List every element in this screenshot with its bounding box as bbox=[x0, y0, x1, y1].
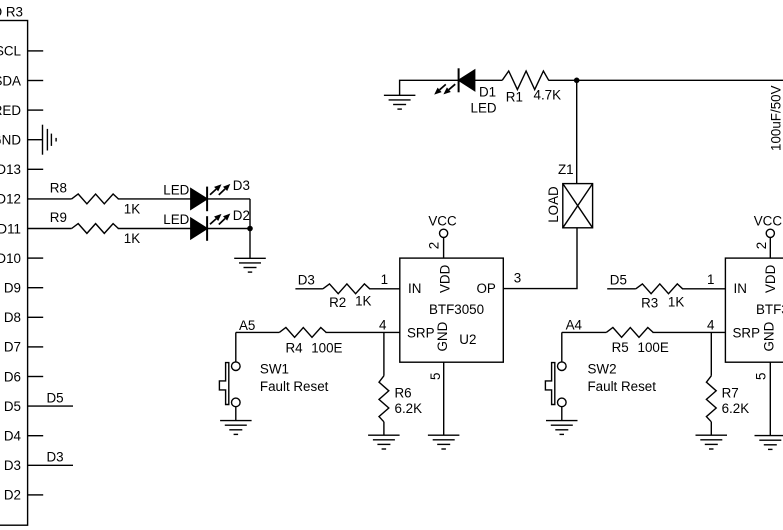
svg-text:3: 3 bbox=[514, 271, 521, 286]
svg-text:4.7K: 4.7K bbox=[534, 88, 562, 103]
svg-text:D9: D9 bbox=[4, 281, 21, 296]
pin D6 stub bbox=[28, 376, 44, 378]
wire R7 to ground bbox=[710, 422, 712, 435]
svg-text:SW2: SW2 bbox=[588, 361, 617, 376]
wire R3 to U3 IN bbox=[682, 288, 725, 290]
label GND U2 bbox=[435, 321, 450, 351]
resistor R8 bbox=[72, 194, 119, 204]
wire A5 down to SW1 bbox=[235, 332, 237, 362]
wire U2 pin5 to ground bbox=[443, 362, 445, 435]
svg-text:VDD: VDD bbox=[437, 264, 452, 293]
pin D7 stub bbox=[28, 346, 44, 348]
svg-text:VCC: VCC bbox=[754, 214, 783, 229]
svg-text:UNO R3: UNO R3 bbox=[0, 4, 23, 19]
svg-text:R5: R5 bbox=[612, 340, 629, 355]
svg-text:5: 5 bbox=[753, 373, 768, 380]
svg-text:R3: R3 bbox=[641, 296, 658, 311]
resistor R6 bbox=[379, 376, 389, 422]
wire D5 to R3 bbox=[607, 288, 636, 290]
svg-text:SRP: SRP bbox=[407, 326, 435, 341]
svg-text:IN: IN bbox=[408, 281, 421, 296]
ground below R6 bbox=[368, 434, 400, 436]
svg-text:1K: 1K bbox=[124, 231, 140, 246]
svg-text:BTF3050: BTF3050 bbox=[429, 302, 484, 317]
svg-text:SW1: SW1 bbox=[260, 361, 289, 376]
pin GND stub bbox=[28, 139, 43, 141]
svg-text:OP: OP bbox=[476, 281, 495, 296]
svg-text:5: 5 bbox=[428, 373, 443, 380]
load Z1 box bbox=[563, 184, 593, 228]
svg-text:D6: D6 bbox=[4, 369, 21, 384]
resistor R3 bbox=[636, 284, 683, 294]
svg-text:D3: D3 bbox=[298, 273, 315, 288]
vcc symbol U2 bbox=[440, 229, 448, 237]
wire U3 pin5 to ground bbox=[769, 362, 771, 435]
resistor R1 bbox=[502, 71, 549, 90]
svg-text:R4: R4 bbox=[286, 341, 304, 356]
svg-text:2: 2 bbox=[426, 242, 441, 249]
svg-text:R8: R8 bbox=[50, 180, 67, 195]
svg-text:VDD: VDD bbox=[763, 264, 778, 293]
wire SRP node to R7 bbox=[710, 332, 712, 375]
driver U3 box bbox=[725, 258, 783, 362]
svg-text:D5: D5 bbox=[610, 273, 627, 288]
wire R8 to LED D3 bbox=[118, 198, 191, 200]
wire D12 to R8 bbox=[28, 198, 72, 200]
ground top-rail left bbox=[384, 94, 416, 96]
pin SDA stub bbox=[28, 80, 44, 82]
svg-text:D2: D2 bbox=[233, 208, 250, 223]
LED D3 bbox=[191, 189, 207, 210]
label GND U3 bbox=[761, 321, 776, 351]
pin 5 number U2 bbox=[428, 373, 443, 380]
wire SW1 to ground bbox=[235, 407, 237, 421]
wire R5 to U3 SRP bbox=[653, 331, 726, 333]
svg-text:D3: D3 bbox=[4, 458, 21, 473]
wire R1 to right edge bbox=[548, 79, 783, 81]
pin D3 stub bbox=[28, 464, 73, 466]
svg-text:D3: D3 bbox=[233, 178, 250, 193]
svg-text:R6: R6 bbox=[395, 386, 412, 401]
svg-text:6.2K: 6.2K bbox=[395, 401, 423, 416]
svg-text:100E: 100E bbox=[311, 341, 342, 356]
ground below R7 bbox=[696, 434, 728, 436]
wire Z1 to U2 OP bbox=[503, 228, 577, 289]
label VDD U3 bbox=[763, 264, 778, 293]
ground U2 pin5 bbox=[428, 434, 460, 436]
wire A4 down to SW2 bbox=[561, 332, 563, 362]
pin D13 stub bbox=[28, 168, 44, 170]
wire A4 to R5 bbox=[562, 331, 607, 333]
svg-text:A4: A4 bbox=[566, 318, 583, 333]
wire D11 to R9 bbox=[28, 228, 72, 230]
pin D4 stub bbox=[28, 435, 44, 437]
pin D8 stub bbox=[28, 316, 44, 318]
svg-text:SCL: SCL bbox=[0, 44, 21, 59]
svg-text:2: 2 bbox=[754, 242, 769, 249]
pin RED stub bbox=[28, 109, 44, 111]
ground below SW1 bbox=[220, 420, 252, 422]
svg-text:D3: D3 bbox=[47, 450, 64, 465]
svg-text:IN: IN bbox=[734, 281, 747, 296]
emission arrows D1 bbox=[440, 84, 446, 89]
svg-text:D5: D5 bbox=[47, 391, 64, 406]
svg-text:1K: 1K bbox=[355, 294, 371, 309]
svg-text:BTF3050: BTF3050 bbox=[756, 302, 783, 317]
wire R6 to ground bbox=[383, 422, 385, 435]
pin 2 number U2 bbox=[426, 242, 441, 249]
pin D2 stub bbox=[28, 494, 44, 496]
svg-text:D10: D10 bbox=[0, 251, 21, 266]
wire junction to Z1 bbox=[576, 80, 578, 183]
svg-text:1K: 1K bbox=[124, 202, 140, 217]
svg-text:GND: GND bbox=[761, 321, 776, 351]
junction dot LED node bbox=[247, 226, 253, 232]
svg-text:D5: D5 bbox=[4, 399, 21, 414]
svg-text:D11: D11 bbox=[0, 221, 21, 236]
capacitor label 100uF/50V bbox=[769, 85, 783, 151]
wire D2 cathode right bbox=[207, 228, 250, 230]
svg-text:D8: D8 bbox=[4, 310, 21, 325]
wire A5 to R4 bbox=[236, 331, 279, 333]
svg-text:100uF/50V: 100uF/50V bbox=[769, 85, 783, 151]
ground below SW2 bbox=[546, 420, 578, 422]
svg-text:4: 4 bbox=[707, 318, 715, 333]
svg-text:D1: D1 bbox=[479, 85, 496, 100]
svg-text:SDA: SDA bbox=[0, 73, 21, 88]
svg-text:100E: 100E bbox=[638, 340, 669, 355]
pin 2 number U3 bbox=[754, 242, 769, 249]
resistor R9 bbox=[72, 224, 119, 234]
svg-text:LOAD: LOAD bbox=[546, 186, 561, 223]
emission arrows D3 bbox=[210, 189, 216, 195]
wire D3 to R2 bbox=[295, 288, 323, 290]
label LOAD bbox=[546, 186, 561, 223]
pin D10 stub bbox=[28, 257, 44, 259]
svg-text:Z1: Z1 bbox=[558, 162, 574, 177]
wire R9 to LED D2 bbox=[118, 228, 191, 230]
svg-text:D4: D4 bbox=[4, 429, 22, 444]
LED D1 cathode bar bbox=[458, 68, 460, 92]
svg-text:6.2K: 6.2K bbox=[722, 401, 750, 416]
svg-text:D7: D7 bbox=[4, 340, 21, 355]
svg-text:R1: R1 bbox=[506, 90, 523, 105]
svg-text:1: 1 bbox=[381, 272, 388, 287]
svg-text:R2: R2 bbox=[329, 295, 346, 310]
driver U2 box bbox=[400, 258, 504, 362]
resistor R4 bbox=[279, 328, 326, 338]
wire R2 to U2 IN bbox=[369, 288, 400, 290]
wire SRP node to R6 bbox=[383, 332, 385, 375]
svg-text:GND: GND bbox=[0, 133, 21, 148]
ground U3 pin5 bbox=[755, 435, 783, 437]
switch SW1 bbox=[232, 362, 241, 371]
switch SW2 bbox=[558, 362, 567, 371]
vcc symbol U3 bbox=[766, 229, 774, 237]
svg-text:R7: R7 bbox=[722, 386, 739, 401]
arduino board U1 box bbox=[0, 21, 28, 526]
svg-text:GND: GND bbox=[435, 321, 450, 351]
resistor R7 bbox=[706, 376, 716, 422]
svg-text:U2: U2 bbox=[459, 332, 476, 347]
svg-text:A5: A5 bbox=[239, 318, 255, 333]
wire D1 to R1 bbox=[475, 79, 503, 81]
svg-text:D13: D13 bbox=[0, 162, 21, 177]
pin D5 stub bbox=[28, 405, 73, 407]
svg-text:D2: D2 bbox=[4, 488, 21, 503]
pin 5 number U3 bbox=[753, 373, 768, 380]
svg-text:SRP: SRP bbox=[733, 326, 761, 341]
svg-text:LED: LED bbox=[163, 182, 189, 197]
wire SW2 to ground bbox=[561, 407, 563, 421]
LED D2 bbox=[191, 218, 207, 239]
label VDD U2 bbox=[437, 264, 452, 293]
wire top-rail left corner bbox=[400, 80, 459, 95]
junction dot top rail bbox=[574, 78, 580, 84]
emission arrows D2 bbox=[210, 219, 216, 225]
resistor R5 bbox=[606, 328, 653, 338]
wire D3 cathode right bbox=[207, 198, 250, 200]
svg-text:VCC: VCC bbox=[428, 214, 457, 229]
svg-text:1: 1 bbox=[707, 272, 714, 287]
svg-text:D12: D12 bbox=[0, 192, 21, 207]
LED D1 triangle bbox=[459, 70, 475, 91]
resistor R2 bbox=[323, 284, 370, 294]
svg-text:Fault Reset: Fault Reset bbox=[260, 379, 329, 394]
pin SCL stub bbox=[28, 50, 44, 52]
svg-text:RED: RED bbox=[0, 103, 21, 118]
ground at GND pin (rotated) bbox=[42, 125, 44, 155]
pin D9 stub bbox=[28, 287, 44, 289]
svg-text:LED: LED bbox=[471, 101, 497, 116]
svg-text:Fault Reset: Fault Reset bbox=[588, 379, 657, 394]
svg-text:LED: LED bbox=[163, 212, 189, 227]
wire LED node down bbox=[249, 199, 251, 258]
svg-text:4: 4 bbox=[379, 318, 387, 333]
svg-text:R9: R9 bbox=[50, 210, 67, 225]
ground below LEDs bbox=[234, 257, 266, 259]
wire R4 to U2 SRP bbox=[326, 331, 400, 333]
svg-text:1K: 1K bbox=[668, 295, 684, 310]
